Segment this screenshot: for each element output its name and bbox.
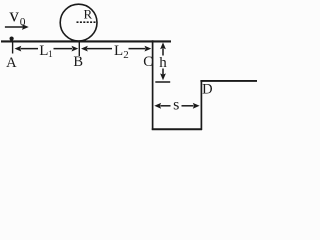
svg-text:L: L [39, 43, 48, 59]
svg-text:0: 0 [20, 16, 26, 28]
svg-text:D: D [202, 82, 212, 98]
svg-text:A: A [6, 55, 17, 71]
svg-text:1: 1 [48, 50, 53, 60]
svg-text:h: h [159, 55, 167, 71]
svg-text:R: R [84, 7, 93, 22]
svg-text:B: B [73, 54, 83, 70]
svg-text:L: L [114, 43, 123, 59]
svg-text:2: 2 [123, 49, 129, 61]
svg-text:C: C [143, 54, 153, 70]
svg-text:s: s [173, 97, 179, 114]
svg-text:v: v [9, 6, 19, 27]
